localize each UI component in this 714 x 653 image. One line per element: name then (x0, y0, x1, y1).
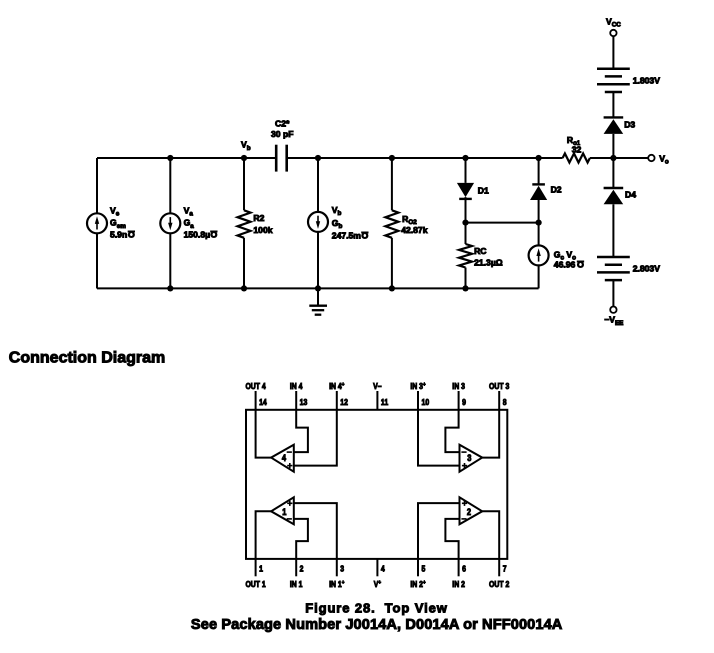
svg-text:11: 11 (381, 398, 388, 408)
battery 2.803V (597, 257, 660, 280)
svg-text:IN 3: IN 3 (452, 381, 465, 391)
op-amp U1 inverting input wire from pin 2 (294, 519, 308, 559)
junction dot (241, 155, 247, 161)
svg-text:IN 1: IN 1 (290, 579, 303, 589)
svg-text:D3: D3 (624, 120, 635, 130)
svg-text:Ga: Ga (184, 218, 195, 230)
svg-text:C2*: C2* (275, 118, 290, 128)
svg-text:IN 2+: IN 2+ (410, 579, 425, 589)
pin label V+ (374, 579, 381, 589)
svg-text:2: 2 (300, 564, 304, 574)
wire bottom rail ground node to RO2 (318, 287, 392, 289)
caption Figure 28 Top View (305, 601, 448, 616)
svg-text:VCC: VCC (606, 16, 621, 28)
pin number 8 (503, 398, 507, 408)
pin 5 stub (417, 559, 419, 576)
pin number 11 (381, 398, 388, 408)
svg-text:1.803V: 1.803V (633, 75, 661, 85)
op-amp U3 output wire from pin 8 (482, 410, 499, 458)
resistor R2 100k (238, 158, 273, 288)
svg-text:9: 9 (462, 398, 466, 408)
svg-text:150.8µ: 150.8µ (184, 229, 211, 239)
wire node D2 to resistor Ro1 (539, 157, 563, 159)
op-amp U1 (271, 497, 294, 524)
resistor Ro1 32 (563, 135, 614, 162)
svg-text:D2: D2 (551, 185, 562, 195)
pin 11 stub (376, 391, 378, 410)
current source Gc Vo 46.96-mho (529, 223, 584, 289)
junction dot (389, 155, 395, 161)
svg-text:Ω: Ω (577, 259, 584, 269)
svg-text:30 pF: 30 pF (271, 129, 293, 139)
wire VCC to battery (612, 36, 614, 68)
svg-text:Gem: Gem (110, 218, 126, 230)
svg-text:Va: Va (184, 205, 194, 217)
svg-text:8: 8 (503, 398, 507, 408)
battery 1.803V (597, 69, 660, 92)
svg-text:2: 2 (467, 507, 472, 517)
wire junction to diode D4 (612, 158, 614, 188)
wire bottom rail RO2 to D1 branch (392, 287, 466, 289)
pin label IN 3+ (410, 381, 425, 391)
svg-text:3: 3 (467, 454, 472, 464)
svg-text:OUT 3: OUT 3 (489, 381, 509, 391)
pin 2 stub (295, 559, 297, 576)
svg-text:Ω: Ω (361, 230, 368, 240)
pin label IN 4+ (329, 381, 344, 391)
svg-text:IN 1+: IN 1+ (329, 579, 344, 589)
svg-text:Ve: Ve (110, 205, 120, 217)
wire top rail Va to node Vb (170, 157, 244, 159)
wire capacitor C2 right plate to node b (287, 157, 318, 159)
wire bottom rail left corner to Va (97, 287, 170, 289)
ground (309, 288, 327, 314)
junction dot (315, 155, 321, 161)
diode D4 (604, 188, 637, 257)
pin number 1 (259, 564, 263, 574)
pin 10 stub (417, 391, 419, 410)
svg-text:5.9n: 5.9n (110, 229, 127, 239)
pin 12 stub (336, 391, 338, 410)
svg-text:247.5m: 247.5m (332, 231, 362, 241)
svg-text:Gb: Gb (332, 218, 343, 230)
op-amp U2 inverting input wire from pin 6 (445, 519, 459, 559)
op-amp U4 inverting input wire from pin 13 (294, 410, 308, 452)
pin label OUT 1 (245, 579, 265, 589)
terminal Vo (648, 153, 669, 165)
junction dot (389, 285, 395, 291)
terminal -VEE (604, 307, 623, 327)
pin number 9 (462, 398, 466, 408)
pin 1 stub (255, 559, 257, 576)
svg-text:42.87k: 42.87k (401, 225, 428, 235)
svg-text:OUT 4: OUT 4 (245, 381, 266, 391)
svg-text:R2: R2 (253, 213, 264, 223)
svg-text:Ω: Ω (128, 229, 135, 239)
pin number 5 (422, 564, 426, 574)
svg-text:Figure 28. Top View: Figure 28. Top View (305, 601, 448, 616)
pin label OUT 2 (489, 579, 509, 589)
svg-text:V+: V+ (374, 579, 381, 589)
capacitor C2 30pF (271, 118, 293, 171)
pin number 10 (422, 398, 430, 408)
pin number 2 (300, 564, 304, 574)
svg-text:1: 1 (282, 507, 287, 517)
svg-text:Vb: Vb (332, 205, 342, 217)
pin number 14 (259, 398, 267, 408)
wire node D1 to node D2 (466, 157, 539, 159)
junction dot (462, 155, 468, 161)
svg-text:4: 4 (381, 564, 386, 574)
svg-text:Vb: Vb (241, 140, 251, 152)
svg-text:13: 13 (300, 398, 308, 408)
op-amp U2 non-inverting input wire from pin 5 (418, 503, 460, 559)
pin number 6 (462, 564, 466, 574)
junction dot (536, 155, 542, 161)
svg-text:OUT 2: OUT 2 (489, 579, 509, 589)
wire node Vb to capacitor C2 left plate (244, 157, 276, 159)
resistor RC 21.3u-ohm (459, 223, 503, 289)
node Vb label (241, 140, 251, 152)
junction dot (610, 155, 616, 161)
wire node RO2 to node D1 (392, 157, 466, 159)
wire middle node D1 to D2 (466, 222, 539, 224)
svg-text:D1: D1 (478, 186, 489, 196)
op-amp U3 inverting input wire from pin 9 (445, 410, 459, 452)
svg-text:−VEE: −VEE (604, 315, 623, 327)
pin number 7 (503, 564, 507, 574)
junction dot (167, 285, 173, 291)
svg-text:46.96: 46.96 (554, 259, 576, 269)
pin label OUT 3 (489, 381, 509, 391)
diode D2 (530, 158, 562, 223)
wire junction to output terminal (613, 157, 648, 159)
op-amp U4 output wire from pin 14 (256, 410, 272, 458)
resistor RO2 42.87k (385, 158, 427, 288)
current source Vb Gb 247.5m-mho (308, 158, 368, 288)
svg-text:32: 32 (572, 145, 582, 155)
junction dot (462, 220, 468, 226)
pin number 13 (300, 398, 308, 408)
pin number 3 (340, 564, 344, 574)
pin 4 stub (376, 559, 378, 576)
junction dot (167, 155, 173, 161)
wire node b to node RO2 (318, 157, 392, 159)
op-amp U4 non-inverting input wire from pin 12 (294, 410, 337, 466)
svg-text:2.803V: 2.803V (633, 263, 661, 273)
caption package numbers (191, 617, 563, 633)
pin label IN 3 (452, 381, 465, 391)
junction dot (315, 285, 321, 291)
pin label IN 4 (290, 381, 303, 391)
wire bottom rail D1 branch to Gc branch corner (466, 287, 539, 289)
svg-text:1: 1 (259, 564, 263, 574)
svg-text:6: 6 (462, 564, 466, 574)
svg-text:RC: RC (474, 246, 486, 256)
svg-text:100k: 100k (253, 225, 272, 235)
pin label V&#8722; (373, 381, 382, 391)
pin label IN 1 (290, 579, 303, 589)
svg-text:IN 4+: IN 4+ (329, 381, 344, 391)
svg-text:Connection Diagram: Connection Diagram (9, 350, 165, 367)
op-amp U2 (460, 497, 483, 524)
svg-text:7: 7 (503, 564, 507, 574)
junction dot (241, 285, 247, 291)
wire battery to diode D3 (612, 92, 614, 117)
wire top rail from left corner to node Va (97, 157, 170, 159)
op-amp U1 output wire from pin 1 (256, 511, 272, 559)
svg-text:12: 12 (340, 398, 348, 408)
heading Connection Diagram (9, 350, 165, 367)
pin 6 stub (458, 559, 460, 576)
current source Ve Gem 5.9n-mho (87, 158, 135, 288)
op-amp U1 non-inverting input wire from pin 3 (294, 503, 337, 559)
pin 13 stub (295, 391, 297, 410)
pin label IN 2 (452, 579, 465, 589)
svg-text:OUT 1: OUT 1 (245, 579, 265, 589)
pin label IN 1+ (329, 579, 344, 589)
pin number 4 (381, 564, 386, 574)
junction dot (462, 285, 468, 291)
svg-text:IN 3+: IN 3+ (410, 381, 425, 391)
svg-text:V−: V− (373, 381, 382, 391)
svg-text:Vo: Vo (659, 153, 669, 165)
pin 14 stub (255, 391, 257, 410)
junction dot (536, 220, 542, 226)
svg-text:D4: D4 (625, 189, 636, 199)
svg-text:See Package Number J0014A, D00: See Package Number J0014A, D0014A or NFF… (191, 617, 563, 633)
svg-text:14: 14 (259, 398, 267, 408)
svg-text:4: 4 (282, 454, 287, 464)
op-amp U2 output wire from pin 7 (482, 511, 499, 559)
pin label IN 2+ (410, 579, 425, 589)
current source Va Ga 150.8u-mho (160, 158, 217, 288)
IC package body (246, 410, 507, 559)
wire bottom rail Va to Vb (170, 287, 244, 289)
svg-text:3: 3 (340, 564, 344, 574)
pin 8 stub (498, 391, 500, 410)
op-amp U3 (460, 445, 483, 472)
svg-text:5: 5 (422, 564, 426, 574)
svg-text:21.3µΩ: 21.3µΩ (474, 258, 503, 268)
svg-text:IN 4: IN 4 (290, 381, 303, 391)
svg-text:Ω: Ω (210, 229, 217, 239)
wire battery to VEE terminal (612, 280, 614, 306)
wire left rail vertical (96, 158, 98, 288)
pin number 12 (340, 398, 348, 408)
diode D3 (604, 117, 636, 158)
svg-text:IN 2: IN 2 (452, 579, 465, 589)
pin 9 stub (458, 391, 460, 410)
terminal VCC (606, 16, 621, 36)
diode D1 (457, 158, 489, 223)
op-amp U4 (271, 445, 294, 472)
pin 3 stub (336, 559, 338, 576)
op-amp U3 non-inverting input wire from pin 10 (418, 410, 460, 466)
svg-text:10: 10 (422, 398, 430, 408)
pin 7 stub (498, 559, 500, 576)
pin label OUT 4 (245, 381, 266, 391)
wire bottom rail Vb to ground node (244, 287, 318, 289)
